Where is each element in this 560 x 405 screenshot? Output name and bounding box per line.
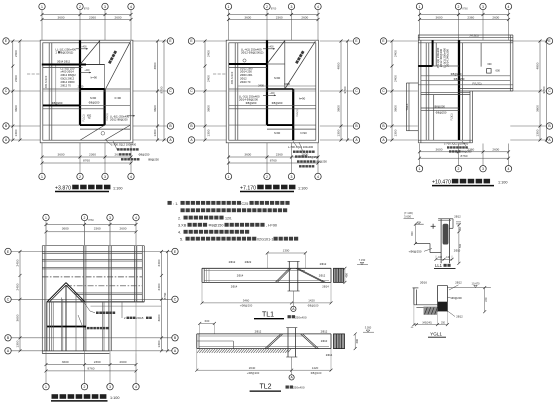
- svg-text:+10.470: +10.470: [432, 179, 451, 185]
- svg-text:2Φ10: 2Φ10: [454, 249, 461, 253]
- svg-text:3: 3: [482, 167, 484, 171]
- plan1 beam horizontal y=125.1: [43, 124, 131, 126]
- plan2 outer wall double rectangle: [226, 40, 318, 143]
- TL1 bottom dimension chain: [202, 302, 331, 304]
- YGL1 main member dark fill: [438, 302, 447, 312]
- svg-text:2400: 2400: [157, 283, 161, 290]
- gable ridge dash-dot line upper: [42, 276, 142, 278]
- svg-text:400: 400: [355, 339, 359, 344]
- svg-text:+Φ8@200: +Φ8@200: [247, 371, 260, 375]
- plan3 left stair bump walls: [405, 83, 407, 131]
- plan3 thick beam horizontal y=66: [418, 65, 432, 67]
- svg-text:2360: 2360: [94, 227, 101, 231]
- gable bottom grid stems: [45, 354, 47, 384]
- svg-text:TL2: TL2: [259, 384, 271, 391]
- svg-text:Φ6@200: Φ6@200: [451, 296, 462, 300]
- svg-text:x400 2Φ14: x400 2Φ14: [61, 70, 75, 74]
- svg-text:2400: 2400: [15, 259, 19, 266]
- svg-text:JYL3(1): JYL3(1): [469, 34, 479, 38]
- plan3 left axis circles: [386, 40, 417, 42]
- plan2 right dimension chain: [340, 41, 342, 140]
- TL1 support axis circle A: [292, 291, 294, 306]
- svg-text:2360: 2360: [467, 15, 474, 19]
- plan3 bottom grid stems: [419, 144, 421, 166]
- svg-text:+3.870: +3.870: [55, 185, 71, 191]
- gable triangle inner slopes: [49, 285, 66, 302]
- plan1 roof slope diagonal large: [105, 41, 131, 90]
- plan1 bottom grid stems: [41, 143, 43, 174]
- svg-text:1300: 1300: [15, 340, 19, 347]
- svg-text:3600: 3600: [393, 105, 397, 112]
- TL2 support axis circle A: [291, 357, 293, 375]
- TL1 right height dim 400: [344, 268, 346, 282]
- svg-text:1300: 1300: [535, 129, 539, 136]
- svg-text:2: 2: [84, 216, 86, 220]
- svg-text:+400: +400: [269, 93, 275, 95]
- svg-text:h=90: h=90: [91, 75, 98, 79]
- gable roof overhang top edge: [42, 245, 144, 247]
- svg-text:2Φ14: 2Φ14: [326, 353, 333, 357]
- svg-text:1: 1: [41, 175, 43, 179]
- svg-text:8760: 8760: [83, 159, 90, 163]
- LL1 coping ear right: [449, 218, 453, 220]
- svg-text::: :: [173, 201, 174, 206]
- plan3 right dimension chain: [539, 41, 541, 140]
- svg-text:h=90: h=90: [274, 131, 281, 135]
- svg-text:1Φ12 2Φ0: 1Φ12 2Φ0: [240, 66, 253, 70]
- svg-text:1: 1: [419, 5, 421, 9]
- LL1 left dim 600: [414, 224, 416, 243]
- svg-text:1300: 1300: [283, 249, 290, 253]
- svg-text:4800: 4800: [336, 62, 340, 69]
- plan3 right total dim line: [546, 41, 548, 140]
- plan2 interior wall pair x=235-238: [234, 43, 236, 140]
- gable triangle outer slopes: [47, 283, 66, 302]
- plan3 thin vertical x=433.7 lower: [433, 95, 435, 141]
- svg-text:3: 3: [109, 385, 111, 389]
- svg-text:120.: 120.: [225, 217, 232, 221]
- svg-text:Φ8@250: Φ8@250: [308, 155, 319, 159]
- svg-text:8760: 8760: [271, 8, 277, 11]
- svg-text:3: 3: [104, 175, 106, 179]
- svg-text:2400: 2400: [157, 259, 161, 266]
- svg-text:1300: 1300: [153, 129, 157, 136]
- plan3 right wall double upper: [509, 35, 511, 91]
- svg-text:h=90: h=90: [274, 76, 281, 80]
- svg-text:2Φ14: 2Φ14: [231, 285, 238, 289]
- svg-text:600: 600: [488, 63, 493, 66]
- plan3 thick beam vertical x=432.6 top: [432, 40, 434, 66]
- svg-text:2: 2: [266, 175, 268, 179]
- gable tie beam thick: [47, 326, 86, 328]
- svg-text:2: 2: [458, 5, 460, 9]
- svg-text:Φ8@200: Φ8@200: [272, 101, 283, 105]
- gable purlin paired lines upper band: [42, 251, 142, 253]
- gable ridge dash-dot line at apex level: [66, 285, 142, 287]
- svg-text:10.470: 10.470: [472, 281, 480, 285]
- svg-text:3: 3: [482, 5, 484, 9]
- gable right axis circles: [172, 248, 178, 254]
- TL2 right anchorage block: [334, 334, 345, 349]
- svg-text:8@200(2): 8@200(2): [61, 50, 74, 54]
- svg-text:3: 3: [291, 175, 293, 179]
- plan2 beam horizontal y=86: [238, 85, 316, 87]
- svg-text:Φ8@200: Φ8@200: [246, 101, 257, 105]
- gable king post: [65, 285, 67, 351]
- TL2 bottom dimension chain: [197, 369, 331, 371]
- TL2 right height dim 400: [354, 334, 356, 349]
- svg-text:2Φ14: 2Φ14: [322, 285, 329, 289]
- plan1 thick beam horizontal y=64.5: [42, 64, 86, 66]
- svg-text:8760: 8760: [462, 8, 468, 11]
- plan2 roof slope diagonal large: [285, 41, 316, 89]
- plan2 center thick beam vertical: [266, 40, 268, 125]
- LL1 wall stem section: [440, 219, 442, 263]
- svg-text:2: 2: [84, 385, 86, 389]
- svg-text:1300: 1300: [14, 129, 18, 136]
- svg-text:2Φ40 70: 2Φ40 70: [240, 80, 251, 84]
- svg-text:2400: 2400: [14, 75, 18, 82]
- svg-text:XB1 h=100: XB1 h=100: [231, 71, 234, 84]
- svg-text:Φ8@200: Φ8@200: [52, 101, 63, 105]
- plan2 top axis circles 1-4: [225, 3, 231, 9]
- svg-text:1300: 1300: [157, 340, 161, 347]
- svg-text:4: 4: [508, 167, 510, 171]
- svg-text:2600: 2600: [120, 227, 127, 231]
- gable grid verticals: [45, 225, 47, 384]
- plan2 bottom dimension chain: [229, 156, 319, 158]
- gable side walls double: [46, 302, 48, 351]
- gable annotation purlin type 3: [78, 315, 83, 328]
- svg-text:FYL7(1): FYL7(1): [472, 82, 481, 85]
- svg-text:2600: 2600: [115, 15, 122, 19]
- plan3 top wall double: [418, 39, 513, 41]
- plan3 grid line stems: [419, 9, 421, 40]
- plan1 wall line y=67.6: [43, 67, 83, 69]
- svg-text:2Φ60 2Φ1: 2Φ60 2Φ1: [240, 73, 253, 77]
- plan1 center thick beam vertical: [79, 40, 81, 125]
- svg-text:3600: 3600: [15, 314, 19, 321]
- svg-text:3: 3: [109, 216, 111, 220]
- svg-text:2400: 2400: [393, 50, 397, 57]
- plan2 wall line y=67.6: [229, 67, 267, 69]
- TL2 bent-up bars: [265, 334, 281, 349]
- svg-text:+Φ8@200: +Φ8@200: [240, 304, 253, 308]
- plan2 right axis circles: [320, 40, 354, 42]
- svg-text:FL3(1): FL3(1): [451, 113, 454, 120]
- svg-text:3600: 3600: [62, 360, 69, 364]
- YGL1 top edge and level line 10.470: [438, 285, 448, 287]
- svg-text:4.: 4.: [178, 231, 181, 235]
- plan1 C axis interior line: [43, 90, 131, 92]
- svg-text:1420: 1420: [308, 299, 315, 303]
- svg-text:2Φ12 70: 2Φ12 70: [61, 83, 72, 87]
- svg-text:2Φ12 Φ8@200: 2Φ12 Φ8@200: [110, 117, 128, 121]
- svg-text:2Φ12: 2Φ12: [321, 329, 328, 333]
- plan1 roof slope diagonal small: [80, 41, 100, 65]
- svg-text:3600: 3600: [58, 15, 65, 19]
- svg-text:8760: 8760: [270, 159, 277, 163]
- svg-text:1: 1: [228, 5, 230, 9]
- plan1 roof slope text (rotated): [108, 50, 117, 64]
- svg-text:Φ8@250: Φ8@250: [454, 77, 465, 81]
- YGL1 right dim 240: [484, 288, 486, 312]
- svg-text:8760: 8760: [84, 8, 90, 11]
- gable left dimension chain: [19, 252, 21, 351]
- svg-text:LL1: LL1: [435, 263, 443, 268]
- svg-text:2Φ14 3Φ60: 2Φ14 3Φ60: [61, 80, 76, 84]
- plan2 wall vertical x=284.8: [284, 41, 286, 90]
- svg-text:3600: 3600: [244, 15, 251, 19]
- plan3 thin vertical x=436.2: [435, 43, 437, 66]
- svg-text:Φ8@250: Φ8@250: [139, 153, 150, 157]
- TL1 left stirrups: [206, 268, 208, 282]
- svg-text:4: 4: [130, 5, 132, 9]
- plan1 bottom cell diagonals: [80, 125, 105, 140]
- svg-text:+7.170: +7.170: [240, 185, 256, 191]
- svg-text:YGL1: YGL1: [430, 331, 442, 336]
- plan1 beam horizontal y=105.4 with thick left half: [43, 104, 131, 106]
- plan1 beam horizontal y=89: [43, 88, 131, 90]
- svg-text:8760: 8760: [461, 154, 468, 158]
- svg-text:3600: 3600: [436, 15, 443, 19]
- plan1 centerline dash stub: [27, 73, 40, 75]
- svg-text:3600: 3600: [244, 153, 251, 157]
- plan3 right wing bottom wall double: [459, 88, 513, 90]
- TL1 inner rebar lines: [204, 269, 305, 271]
- svg-text:XB1 h=100: XB1 h=100: [45, 75, 48, 88]
- gable title: [52, 394, 107, 399]
- gable wall pair at grid 4: [133, 246, 135, 302]
- LL1 level mark line: [417, 222, 421, 224]
- svg-text:2Φ12: 2Φ12: [240, 77, 247, 81]
- TL2 beam outline: [197, 333, 331, 335]
- plan1 outer wall double rectangle: [40, 40, 133, 143]
- svg-text:Φ8@150: Φ8@150: [209, 224, 224, 228]
- svg-text:2640: 2640: [249, 366, 256, 370]
- gable annotation purlin type 2: [121, 302, 123, 318]
- gable axis lines E C B A: [11, 251, 172, 253]
- plan3 bottom axis circles 1-4: [416, 166, 422, 172]
- TL2 left ledge line: [197, 340, 234, 342]
- plan2 roof slope diagonal small: [267, 41, 285, 64]
- LL1 dark rebar zone: [443, 224, 449, 245]
- svg-text:1: 1: [228, 175, 230, 179]
- svg-text:2Φ12: 2Φ12: [456, 315, 463, 319]
- svg-text:Φ8@250: Φ8@250: [436, 111, 447, 115]
- YGL1 bottom extension lines: [413, 305, 415, 325]
- svg-text:2360: 2360: [94, 360, 101, 364]
- svg-text:2400: 2400: [78, 84, 84, 88]
- svg-text:Φ8@250: Φ8@250: [316, 160, 327, 164]
- svg-text:1:100: 1:100: [498, 180, 508, 184]
- svg-text:TL1: TL1: [262, 311, 274, 318]
- svg-text:3600: 3600: [336, 105, 340, 112]
- YGL1 upstand double wall: [413, 288, 415, 305]
- svg-text:2Φ22: 2Φ22: [245, 260, 252, 264]
- svg-text:2Φ14 Φ8@200: 2Φ14 Φ8@200: [239, 98, 258, 102]
- plan2 C axis interior line: [229, 90, 316, 92]
- svg-text:4: 4: [130, 175, 132, 179]
- gable wall studs: [51, 302, 53, 351]
- svg-text:+400: +400: [81, 46, 87, 48]
- gable wall pair at grid 2: [82, 246, 84, 351]
- svg-text:2400: 2400: [206, 50, 210, 57]
- svg-text:2360: 2360: [89, 15, 96, 19]
- svg-text:3: 3: [104, 5, 106, 9]
- svg-text:240: 240: [485, 297, 488, 302]
- svg-text:2: 2: [79, 175, 81, 179]
- svg-text:3: 3: [291, 5, 293, 9]
- plan2 bottom axis circles 1-4: [225, 173, 231, 179]
- svg-text:1300: 1300: [206, 129, 210, 136]
- svg-text:600: 600: [496, 69, 501, 73]
- plan3 bottom wall double: [418, 139, 472, 141]
- svg-text:2Φ12: 2Φ12: [320, 262, 327, 266]
- svg-text:3.050: 3.050: [365, 326, 372, 330]
- svg-text:4: 4: [508, 5, 510, 9]
- plan1 interior wall pair at x=49-52: [48, 43, 50, 140]
- svg-text:2Φ10: 2Φ10: [321, 339, 328, 343]
- plan3 left wall double: [417, 35, 419, 143]
- plan2 beam horizontal y=89: [229, 88, 316, 90]
- plan3 bottom dimension chain: [420, 151, 509, 153]
- svg-text:h=90: h=90: [90, 96, 97, 100]
- gable top axis circles 1-4: [45, 220, 47, 245]
- TL2 column at support A: [287, 328, 289, 357]
- gable purlin band bottom edge dark: [47, 301, 144, 303]
- plan1 bottom axis circles 1-4: [39, 173, 45, 179]
- svg-text:h=90: h=90: [115, 96, 122, 100]
- plan2 corner annotation cluster: [293, 141, 297, 147]
- svg-text:4: 4: [317, 5, 319, 9]
- svg-text:1:100: 1:100: [113, 186, 123, 190]
- LL1 bar cross symbol: [431, 225, 436, 227]
- svg-text:, H=90: , H=90: [266, 224, 277, 228]
- svg-text:Φ8@100: Φ8@100: [308, 304, 319, 308]
- svg-text:8760: 8760: [163, 292, 167, 299]
- plan2 top dimension chain: [229, 14, 319, 16]
- TL1 column at support A: [288, 261, 290, 291]
- YGL1 main member verticals: [437, 286, 439, 312]
- plan1 right dimension chain: [157, 41, 159, 140]
- svg-text:2360: 2360: [276, 153, 283, 157]
- plan1 bottom dimension chain: [42, 156, 131, 158]
- svg-text:3.600: 3.600: [404, 215, 411, 219]
- svg-text:Φ8@250: Φ8@250: [461, 150, 472, 154]
- svg-text:2Φ12 Φ8@200(2): 2Φ12 Φ8@200(2): [241, 50, 263, 54]
- svg-text:3600: 3600: [153, 105, 157, 112]
- svg-text:FL1(1): FL1(1): [296, 109, 299, 116]
- svg-text:3600: 3600: [206, 105, 210, 112]
- gable right dimension chain: [161, 252, 163, 351]
- plan3 wing interior beam y=92.7: [421, 92, 470, 94]
- plan3 left wing right edge wall double: [469, 91, 471, 143]
- plan1 door swing circle: [101, 132, 105, 136]
- svg-text:+400: +400: [268, 46, 274, 48]
- svg-text:2Φ14 250: 2Φ14 250: [240, 70, 252, 74]
- gable eave line lower right: [91, 305, 162, 307]
- svg-text:+Φ6@250: +Φ6@250: [409, 250, 422, 254]
- TL1 top dim 1300: [267, 252, 305, 254]
- svg-text:2Φ12: 2Φ12: [255, 329, 262, 333]
- plan3 top axis circles 1-4: [416, 3, 422, 9]
- svg-text:L-700 JQL2 100x400: L-700 JQL2 100x400: [111, 142, 137, 146]
- plan1 right total dim line: [163, 41, 165, 140]
- notes line 1: [168, 201, 172, 205]
- svg-text:4800: 4800: [153, 62, 157, 69]
- svg-text:L50x5: L50x5: [136, 316, 144, 320]
- plan3 right axis circles: [510, 40, 546, 42]
- plan2 grid line stems: [228, 9, 230, 40]
- svg-text:Φ8@200: Φ8@200: [89, 101, 100, 105]
- svg-text:600: 600: [411, 231, 414, 236]
- TL2 bottom extension lines: [196, 349, 198, 371]
- svg-text:2Φ12: 2Φ12: [319, 274, 326, 278]
- svg-text:2: 2: [79, 5, 81, 9]
- svg-text:5.: 5.: [180, 238, 183, 242]
- svg-text:9700: 9700: [160, 86, 164, 93]
- plan1 grid line stems: [41, 9, 43, 40]
- notes line 2: [181, 208, 288, 212]
- svg-text:2400: 2400: [14, 50, 18, 57]
- svg-text:9700: 9700: [542, 86, 546, 93]
- svg-text:2.: 2.: [178, 217, 181, 221]
- plan1 beam label cluster LL-1: [0, 0, 1, 1]
- svg-text:YGL1: YGL1: [405, 103, 409, 111]
- gable left axis circles: [5, 248, 11, 254]
- plan2 roof slope text (rotated): [295, 51, 304, 64]
- plan2 thick beam horizontal y=64: [229, 63, 267, 65]
- plan3 wing interior beams y=108-111: [421, 107, 459, 109]
- svg-text:2600: 2600: [301, 15, 308, 19]
- gable wall pair at grid 3: [108, 246, 110, 351]
- svg-text:2Φ14: 2Φ14: [237, 274, 244, 278]
- plan3 parapet beam JYL above top wall: [418, 34, 513, 36]
- TL1 right anchorage block: [334, 268, 344, 282]
- svg-text:FL1(1): FL1(1): [83, 114, 86, 121]
- LL1 bottom dim 100 140: [436, 258, 452, 260]
- svg-text:+400: +400: [84, 70, 90, 72]
- svg-text:L-700 JQL2 100x400: L-700 JQL2 100x400: [288, 145, 314, 149]
- svg-text:7.150: 7.150: [359, 258, 366, 262]
- svg-text:2Φ12 Φ8@2: 2Φ12 Φ8@2: [61, 73, 77, 77]
- plan1 left dimension chain: [12, 41, 14, 140]
- svg-text:1:100: 1:100: [298, 186, 308, 190]
- gable roof right overhang edge double: [141, 246, 143, 302]
- svg-text:1300: 1300: [393, 129, 397, 136]
- plan2 right total dim line: [347, 41, 349, 140]
- plan3 top dimension chain: [420, 14, 509, 16]
- svg-text:h=90: h=90: [300, 131, 307, 135]
- svg-text:2Φ14 240x300: 2Φ14 240x300: [446, 49, 450, 67]
- svg-text:2400: 2400: [393, 75, 397, 82]
- svg-text:3600: 3600: [535, 105, 539, 112]
- plan3 left dimension chain: [391, 41, 393, 140]
- svg-text:2: 2: [266, 5, 268, 9]
- svg-text:4800: 4800: [535, 62, 539, 69]
- TL1 beam outline: [202, 267, 331, 269]
- gable bottom wall double: [42, 350, 109, 352]
- svg-text:2400: 2400: [15, 283, 19, 290]
- svg-text:2600: 2600: [120, 360, 127, 364]
- svg-text:2600: 2600: [492, 147, 499, 151]
- gable bottom axis circles: [43, 384, 49, 390]
- YGL1 bottom dim chain: [414, 324, 448, 326]
- plan3 center thick beam vertical: [458, 40, 460, 140]
- TL2 ground hatch below beam: [197, 349, 200, 353]
- svg-text:2600: 2600: [492, 15, 499, 19]
